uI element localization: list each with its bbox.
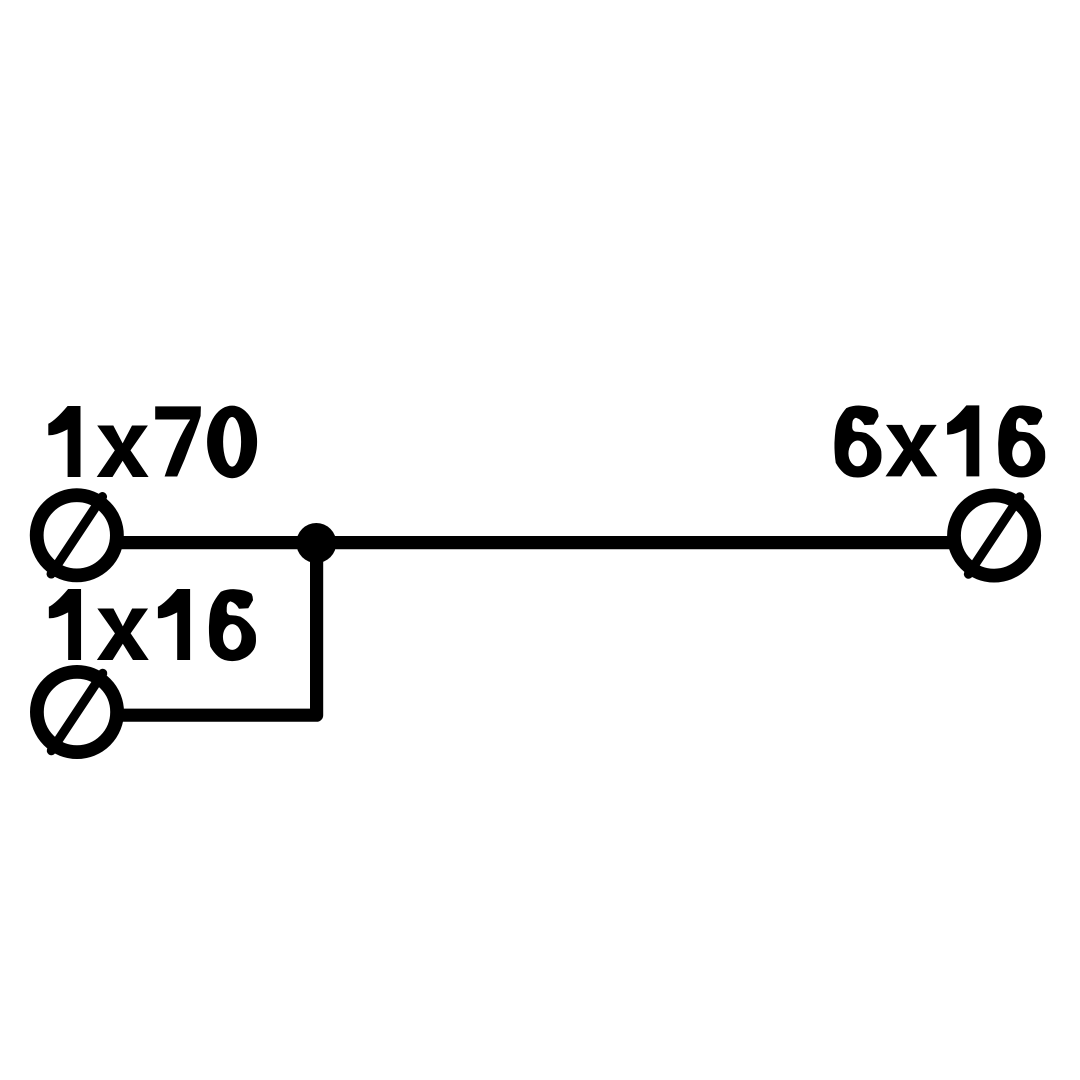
label 1x70 — [48, 406, 80, 477]
node junction dot — [296, 523, 336, 563]
terminal T1 slash — [51, 497, 102, 574]
wire: branch from junction down and left to terminal 1x16 — [77, 543, 317, 716]
terminal T1 (1x70) circle — [37, 495, 117, 575]
label 1x16 — [49, 589, 81, 660]
label 6x16 — [834, 406, 881, 478]
terminal T3 (6x16) circle — [954, 495, 1034, 575]
wire: main horizontal bus from terminal 1x70 to terminal 6x16 — [77, 536, 994, 549]
terminal T2 (1x16) circle — [37, 672, 117, 752]
terminal T2 slash — [51, 673, 102, 750]
terminal T3 slash — [969, 497, 1020, 574]
